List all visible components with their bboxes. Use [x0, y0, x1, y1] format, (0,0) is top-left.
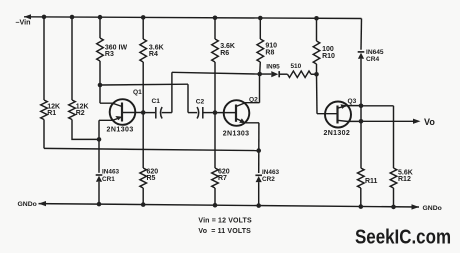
svg-text:CR2: CR2 [262, 176, 275, 183]
svg-text:GNDo: GNDo [18, 201, 37, 208]
svg-text:CR1: CR1 [102, 176, 115, 183]
svg-text:R11: R11 [365, 178, 378, 185]
svg-text:Vo = 11 VOLTS: Vo = 11 VOLTS [198, 228, 251, 235]
svg-text:R12: R12 [398, 176, 411, 183]
svg-text:GNDo: GNDo [423, 205, 442, 212]
svg-text:SeekIC.com: SeekIC.com [355, 227, 451, 249]
svg-text:CR4: CR4 [366, 56, 380, 63]
svg-text:100: 100 [322, 46, 334, 53]
svg-text:3.6K: 3.6K [220, 43, 235, 50]
svg-text:R7: R7 [218, 175, 227, 182]
svg-text:R2: R2 [76, 110, 85, 117]
svg-text:2N1303: 2N1303 [223, 130, 250, 137]
svg-text:R5: R5 [147, 175, 156, 182]
svg-text:2N1302: 2N1302 [324, 130, 351, 137]
svg-text:Q1: Q1 [133, 89, 142, 96]
svg-text:R6: R6 [220, 50, 229, 57]
svg-text:R4: R4 [149, 51, 158, 58]
svg-text:R10: R10 [322, 53, 335, 60]
svg-text:910: 910 [265, 43, 277, 50]
svg-text:Q2: Q2 [249, 96, 258, 103]
svg-text:IN95: IN95 [266, 64, 280, 71]
svg-text:Vin = 12 VOLTS: Vin = 12 VOLTS [198, 217, 252, 224]
svg-text:IN463: IN463 [102, 168, 119, 175]
svg-text:–Vin: –Vin [16, 18, 31, 27]
svg-text:2N1303: 2N1303 [107, 127, 134, 134]
svg-text:IN645: IN645 [366, 49, 384, 56]
svg-text:510: 510 [291, 63, 302, 70]
svg-text:R8: R8 [265, 50, 274, 57]
svg-text:Q3: Q3 [348, 98, 357, 105]
svg-text:R3: R3 [105, 51, 114, 58]
svg-text:Vo: Vo [424, 117, 435, 127]
svg-text:C1: C1 [152, 98, 161, 105]
svg-text:R1: R1 [47, 110, 56, 117]
svg-text:IN463: IN463 [262, 169, 279, 176]
svg-text:C2: C2 [196, 98, 205, 105]
